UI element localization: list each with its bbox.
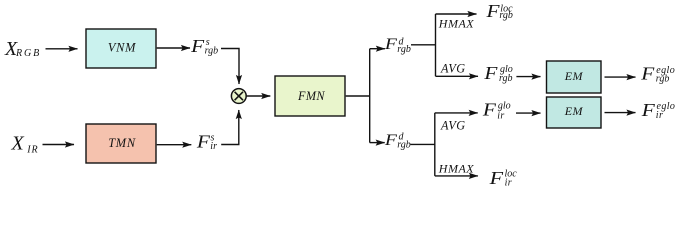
wire arrow HMAX ir [435,175,478,177]
wire arrow F_rgb_glo to EM top [516,76,540,78]
svg-text:F: F [640,64,655,84]
node F_rgb_d bottom [384,132,411,151]
block EM top [547,61,602,93]
node F_rgb_s [190,36,218,57]
svg-text:TMN: TMN [108,136,136,150]
svg-text:F: F [190,36,205,56]
wire arrow AVG rgb [436,75,479,77]
node X_RGB [4,38,41,60]
wire F_ir_s to multiplier (up arrow) [221,110,239,145]
wire arrow split to F_rgb_d top [370,48,385,50]
wire F_rgb_d top to rgb split [411,14,436,76]
svg-text:F: F [384,132,397,149]
svg-text:ir: ir [505,177,512,188]
svg-text:rgb: rgb [397,44,411,55]
block TMN [86,124,156,163]
block EM bottom [547,97,602,128]
node F_rgb_d top [384,36,411,55]
wire arrow multiplier to FMN [247,95,271,97]
node F_ir_eglo [641,100,676,121]
wire arrow AVG ir [435,112,478,114]
svg-text:F: F [641,100,656,120]
wire arrow TMN to F_ir_s [157,144,192,146]
svg-text:FMN: FMN [297,89,325,103]
svg-text:IR: IR [26,144,38,155]
svg-text:F: F [196,132,211,152]
svg-text:X: X [11,132,25,154]
svg-text:F: F [483,63,498,83]
svg-text:EM: EM [564,69,584,83]
wire arrow EM top to F_rgb_eglo [605,76,636,78]
node F_ir_s [196,132,217,153]
svg-text:AVG: AVG [440,61,466,75]
svg-text:F: F [482,100,497,120]
svg-text:rgb: rgb [499,10,513,21]
svg-text:rgb: rgb [205,45,219,56]
svg-text:ir: ir [210,141,217,152]
wire F_rgb_s to multiplier (down arrow) [221,49,239,85]
svg-text:RGB: RGB [15,48,41,59]
svg-text:AVG: AVG [440,119,466,133]
wire arrow EM bottom to F_ir_eglo [605,112,636,114]
node F_rgb_glo [483,63,513,84]
svg-text:EM: EM [564,104,584,118]
svg-text:VNM: VNM [108,40,136,54]
multiplier circle (elementwise product) [231,89,246,104]
svg-text:HMAX: HMAX [438,161,474,175]
svg-text:rgb: rgb [656,74,670,85]
wire FMN output split [346,49,370,143]
svg-text:F: F [488,168,504,188]
svg-text:F: F [384,36,397,53]
wire arrow HMAX rgb [436,13,477,15]
node F_ir_loc [488,168,517,189]
wire arrow split to F_rgb_d bottom [370,142,385,144]
svg-text:rgb: rgb [499,73,513,84]
svg-text:rgb: rgb [397,139,411,150]
svg-text:ir: ir [497,110,504,121]
svg-text:HMAX: HMAX [438,17,474,31]
node X_IR [11,132,39,155]
node F_ir_glo [482,100,511,122]
block FMN [275,76,345,116]
svg-text:ir: ir [656,110,663,121]
wire arrow VNM to F_rgb_s [157,47,190,49]
wire F_rgb_d bottom to ir split [411,113,435,176]
wire arrow F_ir_glo to EM bottom [516,112,541,114]
wire arrow X_RGB to VNM [46,48,78,50]
node F_rgb_loc [485,1,513,21]
block VNM [86,29,156,68]
node F_rgb_eglo [640,64,675,85]
wire arrow X_IR to TMN [43,144,75,146]
svg-text:F: F [485,1,500,21]
